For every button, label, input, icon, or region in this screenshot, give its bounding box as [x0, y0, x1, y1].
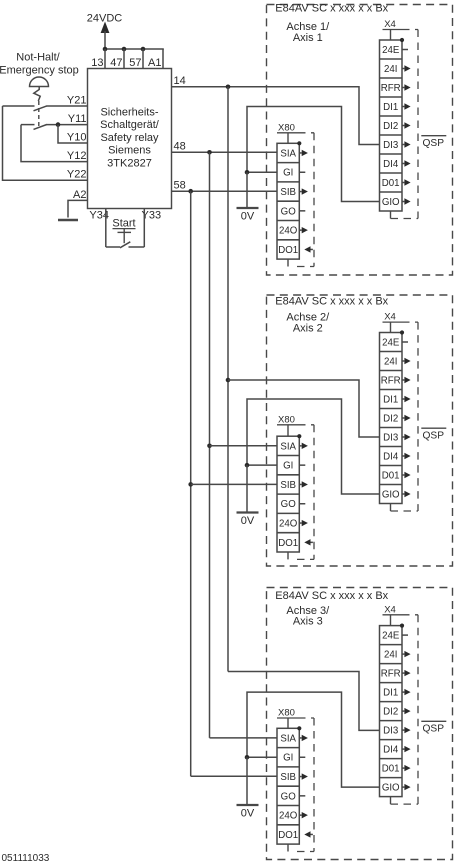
- svg-text:24O: 24O: [279, 226, 298, 237]
- svg-text:Y12: Y12: [67, 150, 87, 162]
- actuator dashed link: [38, 101, 40, 126]
- connector X4 axis 1: [380, 19, 419, 219]
- svg-text:DI2: DI2: [383, 413, 398, 424]
- wire A2: [68, 200, 88, 217]
- svg-text:Y22: Y22: [67, 169, 87, 181]
- wire 58 to SIB axis2: [191, 483, 277, 485]
- wire Y33 down: [143, 209, 145, 248]
- svg-text:GO: GO: [281, 791, 297, 802]
- svg-text:051111033: 051111033: [2, 853, 50, 864]
- svg-text:Safety relay: Safety relay: [100, 132, 159, 144]
- contact NC 2 blade: [34, 125, 47, 130]
- svg-text:DI4: DI4: [383, 451, 399, 462]
- start contact NO: [106, 246, 120, 248]
- junction 14 bus axis2: [226, 378, 231, 383]
- svg-text:QSP: QSP: [423, 138, 445, 149]
- svg-text:Axis 3: Axis 3: [293, 616, 323, 628]
- svg-text:13: 13: [91, 57, 103, 69]
- svg-text:E84AV SC x xxx x x Bx: E84AV SC x xxx x x Bx: [275, 3, 388, 15]
- wire 58 to SIB axis1: [172, 190, 278, 192]
- net QSP axis 1: [421, 135, 446, 137]
- connector X80 axis 2: [277, 414, 314, 559]
- svg-text:D01: D01: [382, 470, 400, 481]
- bus wire 48 vertical: [209, 152, 211, 738]
- connector X80 axis 3: [277, 708, 314, 852]
- svg-text:D01: D01: [382, 764, 400, 775]
- svg-text:RFR: RFR: [381, 375, 401, 386]
- svg-text:47: 47: [110, 57, 122, 69]
- svg-text:SIB: SIB: [280, 187, 296, 198]
- connector X4 axis 2: [380, 312, 419, 511]
- svg-text:0V: 0V: [241, 211, 255, 223]
- junction 58 bus axis2: [188, 482, 193, 487]
- wire 48 to SIA axis1: [172, 151, 278, 153]
- svg-text:QSP: QSP: [423, 431, 445, 442]
- connector X4 axis 3: [380, 604, 419, 804]
- svg-text:A1: A1: [148, 57, 161, 69]
- svg-text:X4: X4: [384, 604, 396, 615]
- svg-text:GI: GI: [283, 753, 293, 764]
- junction GI/0V axis 3: [245, 755, 250, 760]
- junction Y11/Y10: [56, 122, 61, 127]
- wire to 0V axis 1: [246, 172, 248, 208]
- junction 58 bus: [188, 189, 193, 194]
- svg-text:Axis 2: Axis 2: [293, 323, 323, 335]
- svg-text:SIB: SIB: [280, 480, 296, 491]
- svg-text:DI4: DI4: [383, 159, 399, 170]
- svg-text:GI: GI: [283, 461, 293, 472]
- svg-text:GO: GO: [281, 499, 297, 510]
- bus wire 14 vertical: [227, 87, 229, 672]
- safety relay K1 Siemens 3TK2827: [88, 69, 172, 209]
- ground 0V axis 3: [237, 804, 259, 806]
- wire GI to GIO axis 1: [247, 107, 380, 202]
- svg-text:DI1: DI1: [383, 394, 398, 405]
- svg-text:GO: GO: [281, 206, 297, 217]
- svg-text:58: 58: [174, 180, 186, 192]
- svg-text:DO1: DO1: [278, 245, 298, 256]
- junction 47: [122, 47, 127, 52]
- wire Y11 right segment: [47, 124, 88, 126]
- svg-text:E84AV SC x xxx x x Bx: E84AV SC x xxx x x Bx: [275, 296, 388, 308]
- svg-text:DI1: DI1: [383, 102, 398, 113]
- junction GI/0V axis 1: [245, 170, 250, 175]
- wire Y21 right segment: [47, 105, 88, 107]
- wire stub terminal 57: [142, 49, 144, 69]
- svg-text:14: 14: [174, 75, 186, 87]
- wire stub terminal A1: [162, 49, 164, 69]
- svg-text:QSP: QSP: [423, 724, 445, 735]
- svg-text:Sicherheits-: Sicherheits-: [100, 107, 158, 119]
- junction 48 bus axis2: [207, 444, 212, 449]
- bus wire 58 vertical: [190, 191, 192, 776]
- svg-text:Axis 1: Axis 1: [293, 32, 323, 44]
- svg-text:DO1: DO1: [278, 538, 298, 549]
- svg-text:24I: 24I: [384, 650, 397, 661]
- svg-text:24O: 24O: [279, 811, 298, 822]
- svg-text:DI4: DI4: [383, 745, 399, 756]
- net QSP axis 2: [421, 427, 446, 429]
- svg-text:GI: GI: [283, 168, 293, 179]
- svg-text:24I: 24I: [384, 64, 397, 75]
- svg-text:0V: 0V: [241, 808, 255, 820]
- wire Y10: [58, 125, 88, 143]
- wire 58 to SIB axis3: [191, 775, 277, 777]
- emergency stop spring link: [34, 87, 40, 102]
- svg-text:DI3: DI3: [383, 432, 398, 443]
- junction 48 bus: [207, 150, 212, 155]
- svg-text:Y11: Y11: [68, 113, 87, 125]
- junction GI/0V axis 2: [245, 463, 250, 468]
- connector X80 axis 1: [277, 122, 314, 266]
- svg-text:SIB: SIB: [280, 772, 296, 783]
- svg-text:24E: 24E: [382, 337, 400, 348]
- drive unit E84AV axis 1 dashed enclosure: [267, 5, 453, 276]
- drive unit E84AV axis 3 dashed enclosure: [267, 588, 453, 860]
- junction 57: [141, 47, 146, 52]
- svg-text:24O: 24O: [279, 518, 298, 529]
- svg-text:RFR: RFR: [381, 669, 401, 680]
- svg-text:Y10: Y10: [67, 132, 87, 144]
- wire supply bus: [104, 48, 164, 50]
- supply arrow 24VDC: [101, 22, 110, 34]
- svg-text:RFR: RFR: [381, 83, 401, 94]
- svg-text:Schaltgerät/: Schaltgerät/: [100, 119, 160, 131]
- svg-text:48: 48: [174, 141, 186, 153]
- svg-text:GIO: GIO: [382, 783, 400, 794]
- svg-text:X4: X4: [384, 312, 396, 323]
- drive unit E84AV axis 2 dashed enclosure: [267, 295, 453, 566]
- svg-text:24I: 24I: [384, 356, 397, 367]
- junction 13: [103, 47, 108, 52]
- svg-text:A2: A2: [73, 189, 86, 201]
- wire Y34 down: [105, 209, 107, 248]
- svg-text:GIO: GIO: [382, 197, 400, 208]
- svg-text:DI3: DI3: [383, 726, 398, 737]
- wire to 0V axis 2: [246, 465, 248, 512]
- svg-text:GIO: GIO: [382, 489, 400, 500]
- wire 14 to DI3 axis2: [228, 380, 380, 437]
- wire 14 to DI3 axis3: [228, 672, 380, 731]
- ground A2: [58, 219, 78, 221]
- svg-text:X80: X80: [278, 708, 295, 719]
- svg-text:D01: D01: [382, 178, 400, 189]
- svg-text:Start: Start: [112, 218, 135, 230]
- contact NC 1 blade: [34, 106, 47, 111]
- wire 48 to SIA axis2: [210, 445, 278, 447]
- wire GI to GIO axis 2: [247, 399, 380, 494]
- svg-text:SIA: SIA: [280, 733, 296, 744]
- svg-text:24VDC: 24VDC: [87, 13, 123, 25]
- svg-text:0V: 0V: [241, 515, 255, 527]
- svg-text:Siemens: Siemens: [108, 145, 151, 157]
- svg-text:Emergency stop: Emergency stop: [0, 65, 79, 77]
- wire Y21-Y22 loop: [3, 106, 88, 180]
- wire Y11-Y12 loop: [21, 125, 88, 162]
- svg-text:24E: 24E: [382, 631, 400, 642]
- wire Y11 left segment: [21, 124, 35, 126]
- ground 0V axis 2: [237, 511, 259, 513]
- svg-text:Y21: Y21: [67, 95, 87, 107]
- svg-text:E84AV SC x xxx x x Bx: E84AV SC x xxx x x Bx: [275, 590, 388, 602]
- svg-text:X4: X4: [384, 19, 396, 30]
- wire 14 to DI3 axis1: [172, 87, 380, 145]
- wire stub terminal 47: [123, 49, 125, 69]
- ground 0V axis 1: [237, 207, 259, 209]
- svg-text:SIA: SIA: [280, 441, 296, 452]
- net QSP axis 3: [421, 720, 446, 722]
- svg-text:DO1: DO1: [278, 830, 298, 841]
- wire 48 to SIA axis3: [210, 737, 278, 739]
- wire to 0V axis 3: [246, 757, 248, 805]
- svg-text:DI3: DI3: [383, 140, 398, 151]
- svg-text:Not-Halt/: Not-Halt/: [16, 52, 60, 64]
- svg-text:DI2: DI2: [383, 121, 398, 132]
- svg-text:X80: X80: [278, 414, 295, 425]
- wire GI to GIO axis 3: [247, 692, 380, 787]
- svg-text:57: 57: [129, 57, 141, 69]
- start button actuator: [123, 229, 125, 244]
- junction 14 bus: [226, 85, 231, 90]
- svg-text:DI2: DI2: [383, 707, 398, 718]
- svg-text:3TK2827: 3TK2827: [107, 157, 152, 169]
- wire stub terminal 13: [104, 49, 106, 69]
- svg-text:X80: X80: [278, 122, 295, 133]
- svg-text:SIA: SIA: [280, 148, 296, 159]
- svg-text:24E: 24E: [382, 45, 400, 56]
- wire Y21 left segment: [3, 105, 35, 107]
- svg-text:DI1: DI1: [383, 688, 398, 699]
- emergency stop mushroom head: [30, 77, 49, 87]
